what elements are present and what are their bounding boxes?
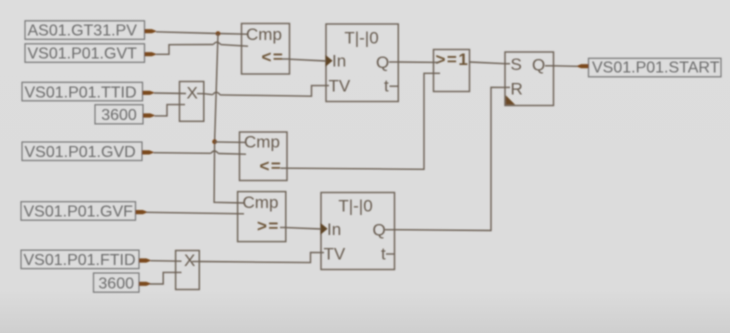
wire VS01.P01.GVD to hop <box>154 152 211 155</box>
svg-text:VS01.P01.GVD: VS01.P01.GVD <box>25 144 136 161</box>
comparator Cmp1 <box>242 24 290 75</box>
svg-text:t: t <box>384 77 389 96</box>
input label box VS01.P01.GVT <box>25 44 145 63</box>
timer T1 In edge-trigger arrow <box>325 55 332 67</box>
connector stub 3600 lower <box>139 282 150 286</box>
input label box VS01.P01.TTID <box>22 82 143 101</box>
svg-text:X: X <box>184 251 195 270</box>
multiplier x1 <box>180 82 204 122</box>
wire Cmp2 out to OR in2 <box>287 73 434 169</box>
node junction dot2 <box>212 139 217 144</box>
connector stub AS01.GT31.PV <box>145 29 156 33</box>
wire hop over bus (GVD wire) <box>211 151 218 154</box>
wire x2 out to T2 TV <box>199 252 324 262</box>
svg-text:VS01.P01.START: VS01.P01.START <box>592 59 720 76</box>
svg-text:<=: <= <box>260 156 283 175</box>
svg-text:S: S <box>511 55 522 74</box>
wire SR Q to VS01.P01.START stub <box>554 65 578 68</box>
wire VS01.P01.TTID to x1 in1 <box>154 92 186 95</box>
input label box 3600 lower <box>94 273 140 292</box>
connector stub VS01.P01.GVT <box>145 52 156 56</box>
timer T1 Q output pin <box>389 61 398 63</box>
svg-text:Q: Q <box>373 221 386 240</box>
svg-text:T|-|0: T|-|0 <box>338 197 372 216</box>
connector stub VS01.P01.TTID <box>143 91 154 95</box>
wire VS01.P01.GVT to Cmp1 in2 <box>156 45 213 55</box>
timer T2 block <box>321 193 395 270</box>
wire 3600 lower to x2 in2 <box>150 272 182 284</box>
connector stub VS01.P01.START <box>577 64 588 68</box>
OR gate >=1 <box>434 50 470 92</box>
SR flip-flop <box>505 52 554 106</box>
svg-text:AS01.GT31.PV: AS01.GT31.PV <box>28 23 138 40</box>
svg-text:Q: Q <box>532 56 545 75</box>
wire VS01.P01.GVF to Cmp3 in2 <box>147 212 245 214</box>
timer T1 block <box>326 24 398 102</box>
svg-text:In: In <box>327 220 341 239</box>
timer T1 t output pin <box>390 85 399 87</box>
svg-text:VS01.P01.GVT: VS01.P01.GVT <box>28 46 138 63</box>
svg-text:In: In <box>332 52 346 71</box>
svg-text:TV: TV <box>329 77 351 96</box>
wire x1 out to hop <box>204 94 213 95</box>
wire Cmp1 out to T1 In <box>290 59 327 61</box>
wire Cmp3 out to T2 In <box>286 228 321 229</box>
svg-text:VS01.P01.GVF: VS01.P01.GVF <box>24 204 134 221</box>
svg-text:TV: TV <box>324 245 346 264</box>
timer T2 Q output pin <box>385 229 395 231</box>
svg-text:Cmp: Cmp <box>243 193 279 212</box>
output label box VS01.P01.START <box>589 58 722 77</box>
input label box VS01.P01.GVF <box>21 202 136 221</box>
wire x1 out continuation to T1 TV <box>220 86 329 97</box>
svg-text:T|-|0: T|-|0 <box>344 29 378 48</box>
comparator Cmp2 <box>240 132 288 181</box>
svg-text:Cmp: Cmp <box>244 133 280 152</box>
wire OR out to SR S input <box>470 62 506 64</box>
wire T1 Q to OR in1 <box>398 61 439 63</box>
SR reset triangle marker <box>506 95 516 105</box>
svg-text:3600: 3600 <box>98 275 134 292</box>
svg-text:Cmp: Cmp <box>246 25 282 44</box>
wire vertical bus dot1 to Cmp3 in1 <box>214 34 245 203</box>
wire VS01.P01.FTID to x2 in1 <box>151 260 182 263</box>
svg-text:<=: <= <box>262 48 285 67</box>
connector stub 3600 upper <box>143 113 154 117</box>
svg-text:3600: 3600 <box>101 107 137 124</box>
wire hop over bus (GVT wire) <box>213 42 220 44</box>
timer T2 t output pin <box>386 253 395 255</box>
wire dot2 branch to Cmp2 in1 <box>215 141 246 144</box>
multiplier x2 <box>176 251 200 290</box>
connector stub VS01.P01.FTID <box>139 258 150 262</box>
svg-text:Q: Q <box>376 53 389 72</box>
svg-text:X: X <box>187 84 198 103</box>
timer T2 In edge-trigger arrow <box>320 223 327 235</box>
connector stub VS01.P01.GVF <box>136 210 147 214</box>
wire GVT continuation into Cmp1 in2 <box>221 45 248 47</box>
wire AS01.GT31.PV to Cmp1 in1 <box>156 32 247 34</box>
svg-text:>=1: >=1 <box>436 50 470 69</box>
input label box 3600 upper <box>95 105 143 124</box>
svg-text:t: t <box>381 245 386 264</box>
svg-text:VS01.P01.FTID: VS01.P01.FTID <box>24 252 136 269</box>
input label box VS01.P01.FTID <box>21 250 139 269</box>
connector stub VS01.P01.GVD <box>142 150 153 154</box>
input label box VS01.P01.GVD <box>22 142 142 161</box>
input label box AS01.GT31.PV <box>25 21 145 40</box>
wire 3600 upper to x1 in2 <box>155 105 186 116</box>
node junction dot1 <box>216 31 221 36</box>
comparator Cmp3 <box>238 192 286 242</box>
svg-text:VS01.P01.TTID: VS01.P01.TTID <box>25 84 137 101</box>
wire T2 Q to SR R input <box>395 87 506 230</box>
svg-text:>=: >= <box>257 216 280 235</box>
wire hop over bus (x1 out wire) <box>213 92 220 95</box>
wire GVD continuation into Cmp2 in2 <box>218 153 246 156</box>
svg-text:R: R <box>511 79 523 98</box>
